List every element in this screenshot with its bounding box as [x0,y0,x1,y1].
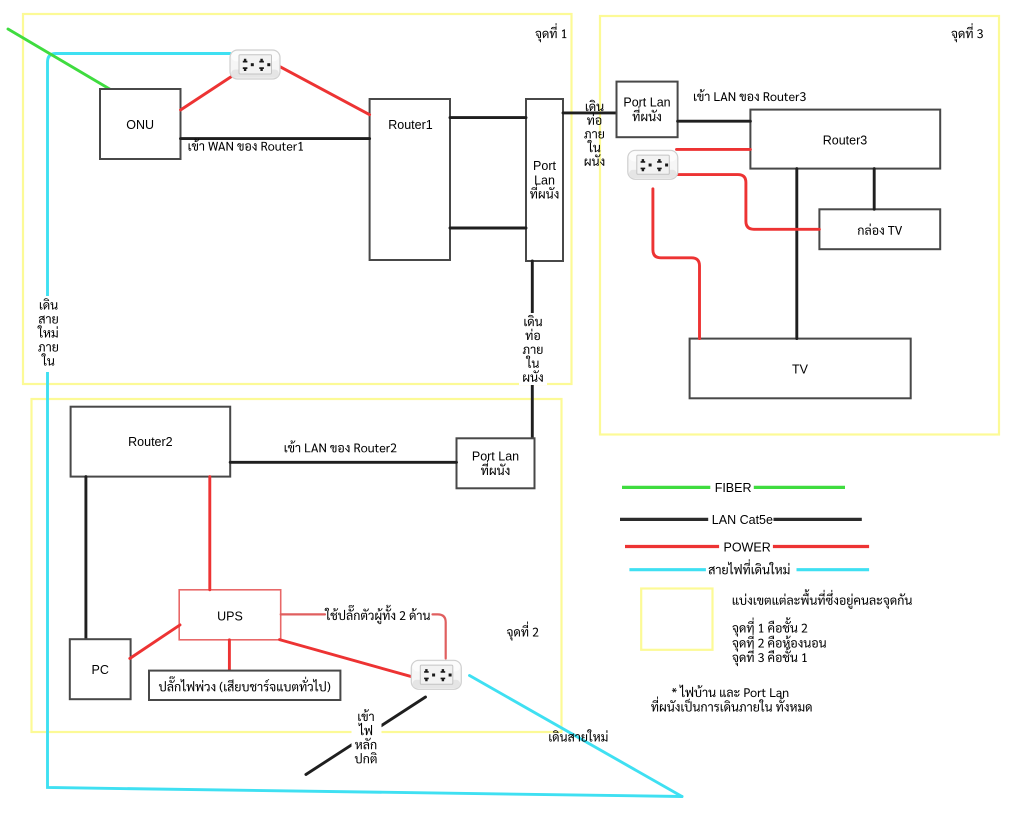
wire red UPS to PC [130,625,180,659]
box UPS [179,590,281,640]
svg-text:Router2: Router2 [128,435,173,449]
box Router1 [370,99,450,260]
wire red outlet O3 to กล่อง TV [677,175,820,230]
wire green FIBER drop to ONU [8,29,116,93]
note * ไฟบ้าน และ Port Lan [672,685,788,698]
wire black Router3 to TV [795,169,798,339]
legend cyan line right [797,568,870,571]
box Port Lan ที่ผนัง (จุดที่ 2) [457,438,535,488]
wire red outlet O3 to Router3 [677,148,751,151]
zone label จุดที่ 2 [507,622,539,641]
wire black Router2 to PortLan2 [230,461,456,464]
legend text แบ่งเขตแต่ละพื้นที่ซึ่งอยู่คนละจุดกัน [733,589,912,609]
svg-text:LAN Cat5e: LAN Cat5e [712,513,773,527]
svg-text:Port Lan: Port Lan [472,450,519,464]
outlet O2 (จุดที่ 2) [411,660,461,689]
legend text จุดที่ 2 คือห้องนอน [732,633,826,652]
wire black PortLan3 to Router3 [678,120,751,123]
legend text จุดที่ 3 คือชั้น 1 [732,647,806,666]
wire cyan diagonal from outlet จุดที่ 2 [470,676,683,797]
outlet O3 (จุดที่ 3) [628,150,678,179]
svg-text:Port Lan: Port Lan [623,96,670,110]
legend text จุดที่ 1 คือชั้น 2 [732,617,807,636]
label กล่อง TV [858,224,902,235]
legend zone sample square [641,589,712,650]
wire red ONU to outlet O1 [181,75,235,111]
wire red outlet O3 to TV [653,189,700,339]
legend cyan line left [629,568,706,571]
wire red Router2 to UPS [208,477,211,590]
wire red UPS to outlet O2 [280,640,412,677]
outlet O1 (จุดที่ 1) [230,50,280,79]
label เดินสายใหม่ [549,729,607,741]
zone label จุดที่ 1 [535,23,566,42]
svg-text:Router1: Router1 [388,118,433,132]
box ปลั๊กไฟพ่วง [149,671,340,700]
note ที่ผนังเป็นการเดินภายใน ทั้งหมด [651,696,812,711]
svg-text:ONU: ONU [126,118,154,132]
wire black Router1 to PortLan1 lower [450,227,526,230]
svg-text:UPS: UPS [217,609,243,623]
legend FIBER line left [622,486,710,489]
label เข้า LAN ของ Router3 [694,89,806,101]
wire black WAN ONU to Router1 [181,137,370,140]
label เข้า WAN ของ Router1 [189,139,303,151]
box Router3 [750,110,940,169]
label เดิน สาย ใหม่ ภาย ใน [34,296,64,372]
label เดิน ท่อ ภาย ใน ผนัง (mid) [519,313,547,385]
wire black Router1 to PortLan1 upper [450,116,526,119]
svg-text:Port: Port [533,159,556,173]
box กล่อง TV [819,209,940,249]
box Router2 [71,407,231,477]
label ที่ผนัง (จุดที่ 1) [530,184,558,199]
label ปลั๊กไฟพ่วง (เสียบชาร์จแบตทั่วไป) [159,676,330,692]
label เข้า ไฟ หลัก ปกติ [352,709,382,766]
wire black Router3 to กล่อง TV [873,169,876,210]
label เข้า LAN ของ Router2 [285,440,397,452]
label ใช้ปลั๊กตัวผู้ทั้ง 2 ด้าน [325,605,430,624]
wire black PortLan1 to PortLan3 [563,111,617,114]
label ที่ผนัง (จุดที่ 3) [632,106,660,121]
wire black เข้าไฟหลักปกติ diagonal [306,697,426,775]
svg-text:POWER: POWER [724,540,771,554]
legend LAN line right [774,518,862,521]
wire red outlet O1 to Router1 [279,66,369,114]
wire black PortLan1 down to PortLan2 [531,261,534,438]
wire cyan new-cable run (corner + long verticals) [48,54,683,797]
svg-text:FIBER: FIBER [715,481,752,495]
zone frame จุดที่ 2 [32,399,562,732]
box PC [70,639,131,699]
wire black Router2 to PC [84,477,87,640]
box ONU [100,89,181,159]
zone frame จุดที่ 1 [23,14,572,384]
box TV [690,339,911,399]
wire red note to outlet O2 (corner) [433,614,446,658]
box Port Lan ที่ผนัง (จุดที่ 3) [617,82,678,138]
legend POWER line right [773,545,869,548]
svg-text:Router3: Router3 [823,134,868,148]
svg-text:Lan: Lan [534,174,555,188]
legend LAN line left [620,518,708,521]
label เดิน ท่อ ภาย ใน ผนัง (จุดที่ 3) [586,100,604,111]
legend POWER line left [625,545,719,548]
label ที่ผนัง (จุดที่ 2) [481,460,509,475]
zone label จุดที่ 3 [951,23,983,42]
box Port Lan ที่ผนัง (จุดที่ 1) [526,99,563,261]
legend สายไฟที่เดินใหม่ text [709,559,790,574]
zone frame จุดที่ 3 [600,16,999,435]
wire red UPS to note (left part) [281,613,325,615]
svg-text:TV: TV [792,363,809,377]
svg-text:PC: PC [92,663,109,677]
wire red UPS to ปลั๊กไฟพ่วง [228,640,231,671]
legend FIBER line right [754,486,845,489]
